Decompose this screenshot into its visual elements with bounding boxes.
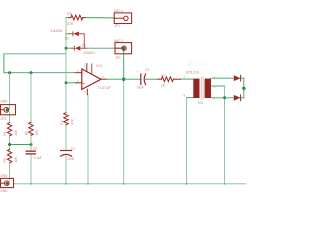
resistor R4 47K vertical — [64, 113, 68, 125]
wire R7 to transformer primary top — [181, 78, 194, 80]
svg-text:R1: R1 — [3, 131, 7, 135]
capacitor C2 0.1uF — [26, 151, 35, 154]
wire JP2 pin down to op-amp output node — [123, 49, 125, 80]
svg-text:10K: 10K — [35, 129, 39, 136]
wire diode row2 output to JP2 pin — [86, 47, 122, 49]
svg-text:1N4001: 1N4001 — [51, 29, 63, 33]
wire divider mid node y=144.5 — [10, 144, 31, 146]
svg-text:R5: R5 — [67, 12, 72, 16]
diode D4 rectifier bottom — [234, 95, 241, 101]
junction at (243.8,88.4) — [242, 87, 245, 90]
connector JP3 top-left — [1, 105, 16, 115]
svg-text:10K: 10K — [14, 129, 18, 136]
resistor R7 1K horizontal — [158, 77, 181, 82]
svg-text:R2: R2 — [25, 131, 29, 135]
junction at (9.6,72.7) — [8, 71, 11, 74]
junction bus at x=123.7 — [123, 183, 125, 185]
connector JP1 — [114, 13, 131, 24]
svg-text:R4: R4 — [60, 120, 64, 124]
svg-text:10K: 10K — [14, 156, 18, 163]
svg-text:+: + — [137, 70, 139, 74]
junction at (123.7,79.2) — [122, 78, 125, 81]
svg-text:6: 6 — [102, 75, 104, 79]
capacitor C3 10uF electrolytic series — [141, 74, 146, 85]
svg-text:JP2: JP2 — [115, 56, 121, 60]
diode D2 1N4001 row1 — [69, 32, 84, 37]
junction at (224.6,97.8) — [223, 96, 226, 99]
wire right edge rail joining rectifier outputs — [243, 78, 245, 98]
svg-text:GND: GND — [0, 174, 8, 178]
wire transformer primary bottom down to ground bus — [186, 98, 188, 184]
svg-text:TL071P: TL071P — [98, 86, 112, 90]
junction at (31,144.5) — [30, 143, 33, 146]
svg-text:47K: 47K — [70, 118, 74, 125]
svg-text:C3: C3 — [145, 68, 149, 72]
wire net left vertical x=3.9 — [3, 54, 5, 73]
connector JP2 — [115, 43, 132, 54]
junction bus at x=186.6 — [186, 183, 188, 185]
svg-text:GND: GND — [0, 189, 8, 193]
svg-text:DAC-1: DAC-1 — [114, 9, 124, 13]
wire rail x=66 R4 to C1 — [65, 125, 67, 150]
wire rail x=9.6 resistor R1 to node y=144.5 — [9, 136, 11, 150]
wire rail x=31 R2 to mid node — [30, 135, 32, 150]
wire rail x=9.6 below JP3 to resistor R1 — [9, 112, 11, 123]
junction at JP5 pin — [6, 182, 9, 185]
wire rail x=66 below C1 to ground bus — [65, 156, 67, 184]
wire transformer secondary center tap — [211, 85, 225, 87]
svg-text:R7: R7 — [161, 74, 165, 78]
svg-text:C1: C1 — [71, 146, 75, 150]
junction bus at x=88 — [87, 183, 89, 185]
wire rail x=31 from inverting net down to R2 — [30, 73, 32, 123]
junction at JP2 pin — [122, 47, 125, 50]
resistor R3 10K vertical lower-left — [7, 149, 11, 163]
svg-text:T01: T01 — [197, 101, 203, 105]
wire R5 left stub — [66, 17, 68, 19]
wire rail x=66 diode row2 down to R4 — [65, 48, 67, 113]
svg-text:4: 4 — [183, 93, 185, 97]
junction bus at x=224.6 — [224, 183, 226, 185]
svg-text:D1: D1 — [82, 44, 86, 48]
svg-text:10uF: 10uF — [137, 85, 144, 89]
svg-text:42TL013: 42TL013 — [186, 70, 199, 74]
junction bus at x=31 — [30, 183, 32, 185]
ground bus wire y=183.8 — [14, 183, 247, 185]
wire diode D4 cathode to right edge rail — [242, 97, 244, 99]
svg-text:GND: GND — [0, 100, 8, 104]
wire op-amp output node down to ground bus — [123, 79, 125, 184]
svg-text:-: - — [83, 70, 85, 75]
svg-text:DAC-2: DAC-2 — [114, 39, 124, 43]
wire transformer secondary bottom to diode D4 — [211, 97, 234, 99]
diode D3 rectifier top — [234, 75, 241, 81]
junction at (66,48.2) — [65, 47, 68, 50]
resistor R5 47K horizontal — [68, 15, 85, 20]
wire center tap down to ground bus — [224, 86, 226, 184]
wire rail x=9.6 from inverting net to JP3 pin — [9, 73, 11, 110]
svg-text:47K: 47K — [67, 22, 74, 26]
wire red link D2 cathode to D1 row — [83, 34, 85, 48]
svg-text:1: 1 — [183, 75, 185, 79]
wire transformer secondary top to diode D3 — [211, 77, 234, 79]
wire diode row2 left stub — [66, 47, 72, 49]
svg-text:1: 1 — [213, 96, 215, 100]
junction at JP3 pin — [6, 108, 9, 111]
junction at (9.6,144.5) — [8, 143, 11, 146]
junction at (31,72.7) — [30, 71, 33, 74]
wire diode D3 cathode to right edge rail — [242, 77, 244, 79]
svg-text:JP1: JP1 — [114, 24, 120, 28]
svg-text:JP3: JP3 — [0, 117, 6, 121]
svg-text:22uF: 22uF — [67, 157, 74, 161]
wire op-amp V- pin down to ground bus — [87, 95, 89, 184]
transformer T1 42TL013 — [193, 77, 211, 100]
wire diode row1 left stub — [66, 33, 69, 35]
resistor R1 10K vertical upper-left — [7, 123, 11, 136]
wire C3 to R7 — [145, 78, 157, 80]
wire rail x=66 from R5 down to diode row1 — [65, 18, 67, 49]
svg-text:+: + — [83, 81, 86, 86]
diode D1 1N4001 row2 — [72, 46, 86, 51]
wire op-amp inverting input y=72.7 — [4, 72, 76, 74]
wire R5 to JP1 pin — [85, 17, 114, 19]
svg-text:4: 4 — [84, 90, 86, 94]
junction bus at x=66 — [65, 183, 67, 185]
wire rail x=9.6 resistor R3 to JP5 pin — [9, 163, 11, 181]
junction at (66,82.8) — [65, 81, 68, 84]
wire horizontal y=53.8 to rail x=66 — [4, 53, 66, 55]
wire transformer primary bottom stub — [187, 97, 194, 99]
svg-text:D2: D2 — [65, 37, 69, 41]
svg-text:7: 7 — [84, 64, 86, 68]
svg-text:1K: 1K — [161, 83, 166, 87]
svg-text:R3: R3 — [3, 158, 7, 162]
svg-text:42TL013: 42TL013 — [187, 61, 210, 67]
svg-text:IC1: IC1 — [96, 64, 102, 68]
capacitor C1 22uF electrolytic — [61, 151, 72, 157]
svg-text:0.1uF: 0.1uF — [34, 156, 42, 160]
wire output stub to right edge — [244, 87, 246, 89]
connector JP5 bottom-left — [1, 178, 14, 187]
resistor R2 10K vertical upper — [29, 122, 33, 135]
wire rail x=31 below C2 to ground bus — [30, 155, 32, 184]
wire op-amp non-inverting input y=82.8 — [66, 82, 76, 84]
svg-text:C2: C2 — [33, 146, 37, 150]
op-amp IC1 TL071P — [76, 64, 106, 95]
svg-text:1N4001: 1N4001 — [83, 51, 95, 55]
wire op-amp output to capacitor C3 — [106, 78, 140, 80]
